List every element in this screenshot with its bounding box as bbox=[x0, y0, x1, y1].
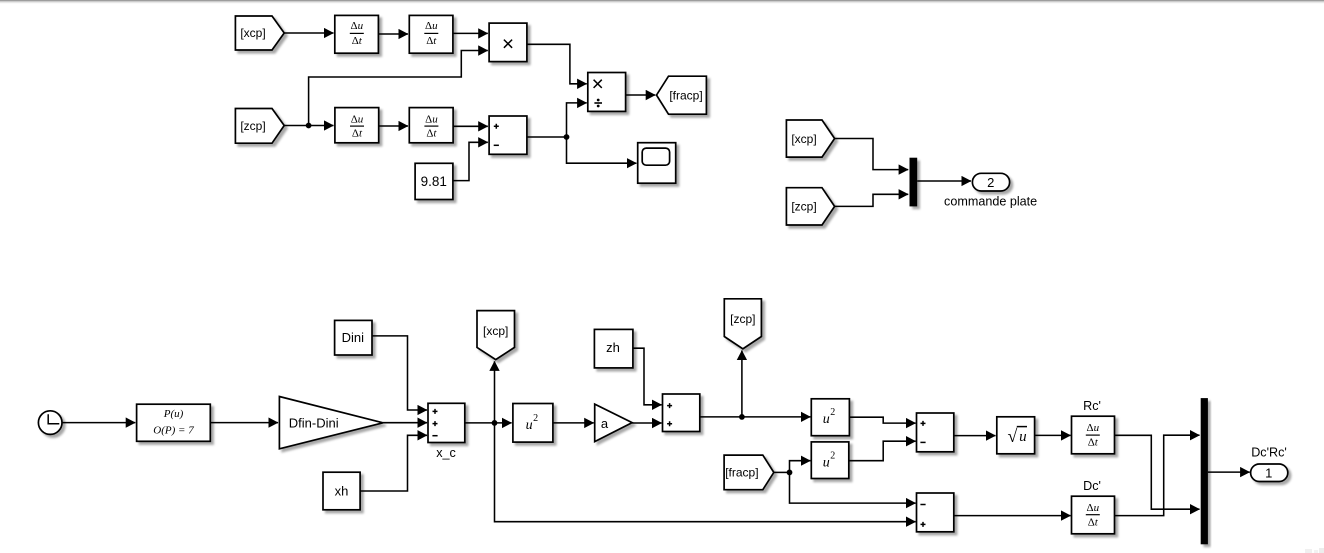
svg-text:Δt: Δt bbox=[1088, 516, 1099, 528]
junction fracp branch bbox=[787, 470, 793, 476]
polynomial P(u) bbox=[137, 404, 211, 441]
Goto tag [fracp] bbox=[657, 76, 707, 114]
svg-text:Δt: Δt bbox=[426, 35, 437, 47]
wire branch to scope bbox=[567, 137, 637, 163]
wire polynomial to gain bbox=[210, 422, 278, 424]
From tag [fracp] (bottom) bbox=[724, 455, 774, 490]
wire x_c output to u2 block A bbox=[465, 422, 512, 424]
svg-text:Δu: Δu bbox=[425, 20, 438, 32]
wire S3 output to u2 top bbox=[700, 416, 811, 418]
outport 2 bbox=[972, 173, 1009, 191]
svg-text:Δt: Δt bbox=[352, 128, 363, 140]
wire D3 to D4 bbox=[379, 125, 408, 127]
wire gain to sum x_c input 2 bbox=[383, 422, 427, 424]
sum x_c bbox=[428, 403, 465, 442]
wire D1 to D2 bbox=[378, 33, 408, 35]
wire P2 to goto [fracp] bbox=[626, 94, 656, 96]
junction x_c output bbox=[492, 420, 498, 426]
derivative Rc' bbox=[1072, 416, 1115, 454]
constant 9.81 bbox=[415, 163, 453, 199]
junction S1 output bbox=[564, 134, 570, 140]
wire [xcp] to derivative D1 bbox=[284, 32, 333, 34]
svg-text:1: 1 bbox=[1265, 465, 1272, 480]
svg-text:Δu: Δu bbox=[1087, 502, 1100, 514]
product P2 (multiply divide) bbox=[588, 73, 626, 112]
wire branch up to goto [xcp] bbox=[494, 361, 496, 423]
top toolbar shadow edge bbox=[0, 0, 1324, 3]
svg-text:2: 2 bbox=[987, 175, 994, 190]
svg-text:u: u bbox=[1019, 429, 1027, 445]
From tag [zcp] (top left) bbox=[235, 109, 284, 144]
wire xh to sum x_c input 3 bbox=[360, 435, 427, 491]
From tag [xcp] (top left) bbox=[235, 16, 284, 50]
svg-text:zh: zh bbox=[606, 340, 620, 355]
svg-text:[xcp]: [xcp] bbox=[791, 132, 816, 146]
gain Dfin-Dini bbox=[279, 397, 383, 449]
square u2 top bbox=[811, 399, 849, 436]
wire branch down to sum S4 minus input bbox=[790, 472, 916, 503]
svg-text:Dini: Dini bbox=[342, 330, 365, 345]
Goto tag [xcp] (down) bbox=[477, 311, 515, 360]
wire clock to polynomial bbox=[62, 422, 135, 424]
derivative D2 bbox=[409, 15, 453, 53]
sum S3 bbox=[663, 394, 700, 432]
wire gain a to sum S3 input 2 bbox=[632, 422, 662, 424]
Goto tag [zcp] (down) bbox=[724, 299, 761, 349]
wire Dc' to mux M1 top input (crossing up) bbox=[1115, 435, 1200, 515]
svg-text:a: a bbox=[601, 416, 609, 431]
wire u2 bottom to sum S5 minus input bbox=[849, 441, 916, 461]
wire D2 to product P1 input 1 bbox=[453, 32, 488, 34]
derivative D1 bbox=[335, 15, 379, 53]
svg-text:2: 2 bbox=[533, 413, 538, 424]
sqrt block bbox=[997, 417, 1035, 454]
wire branch up to goto [zcp] bbox=[741, 351, 743, 417]
constant zh bbox=[594, 329, 633, 368]
wire S1 output to branch bbox=[527, 136, 567, 138]
clock bbox=[38, 411, 62, 435]
svg-text:[zcp]: [zcp] bbox=[791, 200, 816, 214]
From tag [xcp] (middle right) bbox=[786, 120, 834, 157]
svg-text:xh: xh bbox=[335, 484, 349, 499]
wire sqrt to derivative Rc bbox=[1035, 434, 1071, 436]
sum S1 bbox=[489, 116, 527, 154]
wire zh to sum S3 input 1 bbox=[633, 348, 662, 405]
svg-text:Δt: Δt bbox=[426, 128, 437, 140]
svg-text:Dc': Dc' bbox=[1083, 479, 1101, 493]
derivative Dc' bbox=[1072, 496, 1115, 534]
sum S4 bbox=[917, 493, 954, 532]
wire M1 to outport 1 bbox=[1208, 471, 1250, 473]
mux M1 bbox=[1201, 398, 1208, 544]
svg-text:Rc': Rc' bbox=[1083, 399, 1101, 413]
svg-text:[fracp]: [fracp] bbox=[725, 466, 758, 480]
outport 1 bbox=[1251, 464, 1288, 482]
From tag [zcp] (middle right) bbox=[786, 188, 834, 225]
derivative D3 bbox=[335, 108, 379, 143]
svg-text:[xcp]: [xcp] bbox=[483, 324, 508, 338]
svg-text:Δu: Δu bbox=[1087, 422, 1100, 434]
junction S3 output bbox=[739, 414, 745, 420]
svg-text:Δu: Δu bbox=[351, 113, 364, 125]
wire u2 A to gain a bbox=[553, 422, 594, 424]
square u2 block A bbox=[513, 404, 553, 443]
wire 9.81 to sum S1 minus input bbox=[453, 142, 488, 180]
square u2 bottom bbox=[811, 442, 849, 479]
wire zcp branch up to product P1 input 2 bbox=[309, 51, 488, 126]
svg-text:[zcp]: [zcp] bbox=[240, 119, 265, 133]
wire P1 to product P2 input 1 bbox=[527, 44, 587, 84]
wire Rc' to mux M1 bottom input (crossing down) bbox=[1115, 435, 1200, 509]
product P1 bbox=[489, 23, 527, 62]
wire [zcp] to derivative D3 bbox=[284, 125, 333, 127]
svg-text:2: 2 bbox=[830, 407, 835, 418]
bottom right faint marks bbox=[1305, 548, 1324, 553]
svg-text:P(u): P(u) bbox=[163, 408, 184, 420]
wire branch down long to sum S4 plus input bbox=[495, 423, 916, 522]
wire Dini to sum x_c input 1 bbox=[372, 336, 427, 410]
wire S5 to sqrt bbox=[954, 435, 996, 437]
wire [xcp] to mux M2 input 1 bbox=[835, 139, 909, 170]
gain a bbox=[595, 404, 632, 442]
svg-text:[zcp]: [zcp] bbox=[730, 312, 755, 326]
sum S5 bbox=[917, 413, 954, 452]
svg-text:Δu: Δu bbox=[351, 20, 364, 32]
svg-text:[xcp]: [xcp] bbox=[240, 26, 265, 40]
svg-text:commande plate: commande plate bbox=[944, 195, 1037, 209]
wire branch to P2 divide input bbox=[567, 103, 587, 137]
mux M2 bbox=[910, 158, 918, 207]
svg-text:O(P) = 7: O(P) = 7 bbox=[153, 425, 194, 437]
svg-text:Δu: Δu bbox=[425, 113, 438, 125]
svg-text:u: u bbox=[526, 418, 533, 433]
svg-text:[fracp]: [fracp] bbox=[669, 88, 702, 102]
derivative D4 bbox=[409, 108, 453, 143]
wire S4 to derivative Dc' bbox=[954, 515, 1071, 517]
wire D4 to sum S1 plus input bbox=[453, 125, 488, 127]
svg-text:u: u bbox=[823, 455, 830, 470]
wire [fracp] to branch bbox=[774, 471, 790, 473]
svg-text:9.81: 9.81 bbox=[421, 174, 447, 189]
svg-text:Dfin-Dini: Dfin-Dini bbox=[289, 416, 339, 431]
svg-text:Dc'Rc': Dc'Rc' bbox=[1251, 446, 1287, 460]
wire branch to u2 bottom bbox=[790, 461, 811, 473]
junction zcp branch bbox=[306, 123, 312, 129]
constant xh bbox=[323, 472, 360, 510]
svg-text:√: √ bbox=[1007, 426, 1017, 446]
svg-text:x_c: x_c bbox=[436, 446, 456, 460]
scope bbox=[638, 143, 676, 184]
wire u2 top to sum S5 plus input bbox=[849, 417, 915, 423]
wire M2 to outport 2 bbox=[917, 180, 971, 182]
wire [zcp] to mux M2 input 2 bbox=[835, 194, 909, 206]
svg-text:Δt: Δt bbox=[352, 35, 363, 47]
constant Dini bbox=[335, 320, 372, 355]
svg-text:Δt: Δt bbox=[1088, 437, 1099, 449]
svg-text:2: 2 bbox=[830, 451, 835, 462]
svg-text:u: u bbox=[823, 412, 830, 427]
